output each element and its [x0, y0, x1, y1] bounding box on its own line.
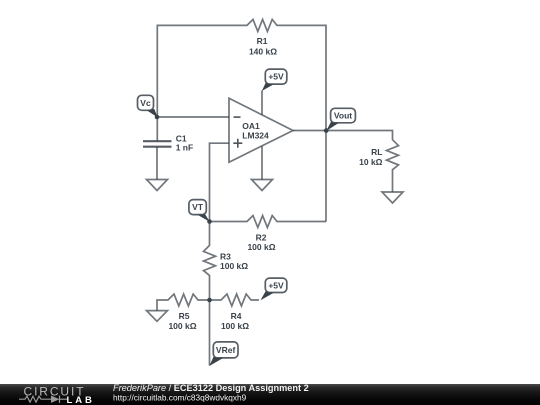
- svg-text:140 kΩ: 140 kΩ: [249, 47, 277, 57]
- svg-text:+5V: +5V: [268, 72, 284, 82]
- svg-text:R4: R4: [231, 311, 242, 321]
- svg-text:VT: VT: [192, 202, 204, 212]
- svg-text:100 kΩ: 100 kΩ: [247, 242, 275, 252]
- svg-text:http://circuitlab.com/c83q8wdv: http://circuitlab.com/c83q8wdvkqxh9: [113, 393, 247, 403]
- svg-text:100 kΩ: 100 kΩ: [221, 321, 249, 331]
- svg-text:R2: R2: [256, 232, 267, 242]
- svg-text:FrederikPare / ECE3122 Design: FrederikPare / ECE3122 Design Assignment…: [113, 383, 309, 393]
- svg-text:LM324: LM324: [242, 130, 269, 140]
- svg-text:10 kΩ: 10 kΩ: [359, 157, 383, 167]
- svg-text:RL: RL: [371, 147, 382, 157]
- svg-text:+5V: +5V: [268, 280, 284, 290]
- svg-text:OA1: OA1: [242, 121, 260, 131]
- svg-text:R3: R3: [220, 252, 231, 262]
- svg-text:1 nF: 1 nF: [176, 142, 193, 152]
- svg-text:100 kΩ: 100 kΩ: [220, 261, 248, 271]
- svg-text:Vout: Vout: [334, 111, 352, 121]
- svg-text:Vc: Vc: [140, 98, 151, 108]
- svg-text:R1: R1: [257, 36, 268, 46]
- svg-text:R5: R5: [179, 311, 190, 321]
- svg-text:100 kΩ: 100 kΩ: [168, 321, 196, 331]
- svg-text:LAB: LAB: [67, 395, 95, 405]
- svg-text:VRef: VRef: [216, 345, 236, 355]
